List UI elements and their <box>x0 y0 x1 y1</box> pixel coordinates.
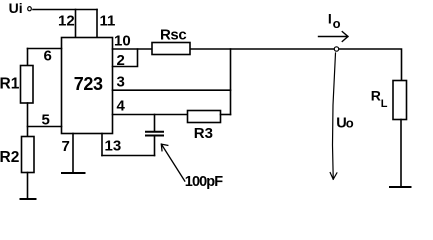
ground pin 7 <box>62 172 85 174</box>
svg-text:7: 7 <box>62 138 70 155</box>
svg-text:I: I <box>328 11 332 27</box>
capacitor C1 top plate <box>146 131 163 133</box>
arrow Uo <box>330 53 337 179</box>
svg-text:13: 13 <box>105 138 122 155</box>
output node <box>334 47 338 51</box>
svg-text:3: 3 <box>117 74 125 91</box>
wire C1 top lead <box>154 115 156 131</box>
resistor Rsc <box>152 43 190 55</box>
op-amp U1 723 regulator body <box>62 38 113 134</box>
resistor R1 <box>21 66 34 104</box>
pin 13 stub <box>101 134 103 156</box>
svg-text:2: 2 <box>117 52 125 69</box>
pin 5 wire <box>28 126 62 128</box>
svg-text:L: L <box>381 98 388 110</box>
svg-text:Ui: Ui <box>9 0 23 16</box>
svg-text:10: 10 <box>114 33 131 50</box>
wire main output rail <box>113 49 402 81</box>
pin 7 stub <box>72 134 74 173</box>
svg-text:R3: R3 <box>194 125 213 142</box>
wire C1 bottom lead <box>154 137 156 156</box>
wire pin13 to C1 <box>102 155 155 157</box>
pin 6 wire <box>28 48 62 50</box>
svg-text:12: 12 <box>58 13 75 30</box>
svg-text:R2: R2 <box>0 149 19 166</box>
pin 3 wire <box>113 89 231 91</box>
pin 2 wire <box>113 49 138 67</box>
pin 4 wire <box>113 114 188 116</box>
wire R3 to bus <box>221 114 231 116</box>
svg-text:6: 6 <box>44 48 52 65</box>
wire pin 12 stub <box>75 10 77 38</box>
resistor R3 <box>188 111 221 123</box>
wire R1 top <box>27 49 29 66</box>
svg-text:o: o <box>346 115 354 130</box>
svg-text:Rsc: Rsc <box>160 27 186 44</box>
wire feedback bus <box>230 49 232 115</box>
svg-text:100pF: 100pF <box>185 174 223 190</box>
resistor R2 <box>22 137 35 173</box>
svg-text:4: 4 <box>117 97 126 114</box>
wire R2 to ground <box>27 173 29 199</box>
ground RL <box>390 186 411 188</box>
wire pin 11 stub <box>96 10 98 38</box>
svg-text:R: R <box>371 88 381 104</box>
input terminal <box>28 7 32 11</box>
svg-text:R1: R1 <box>0 76 20 93</box>
arrow Io <box>319 32 349 42</box>
ground R2 <box>21 198 36 200</box>
svg-text:o: o <box>333 16 341 31</box>
wire RL to ground <box>400 120 402 187</box>
wire R1 to R2 <box>27 103 29 137</box>
capacitor C1 bottom plate <box>146 135 163 137</box>
wire input feed <box>33 9 97 11</box>
svg-text:5: 5 <box>42 112 50 129</box>
annotation arrow to C1 <box>161 144 185 181</box>
resistor RL <box>393 81 407 120</box>
svg-text:723: 723 <box>74 74 103 94</box>
svg-text:11: 11 <box>100 13 116 30</box>
